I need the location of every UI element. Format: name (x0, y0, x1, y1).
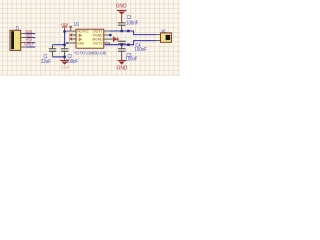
svg-text:GND: GND (116, 4, 127, 10)
svg-text:100nF: 100nF (126, 57, 138, 63)
svg-text:22uF: 22uF (41, 59, 51, 65)
ground flag top (116, 4, 127, 23)
svg-text:100nF: 100nF (126, 20, 138, 26)
J1 pin 4 (21, 46, 27, 48)
wire +5V vertical (64, 30, 66, 44)
U1 right pin 8 (OUT1) (104, 30, 110, 32)
no-connect X pin2 (69, 34, 72, 37)
pin 4 endpoint dot (66, 42, 68, 44)
svg-text:YS-TXYJ-B4B0U-C4B: YS-TXYJ-B4B0U-C4B (74, 50, 106, 55)
connector J1 (10, 30, 21, 50)
antenna connector M1 (161, 33, 172, 42)
capacitor C4 (118, 41, 126, 45)
capacitor C5 (118, 45, 126, 60)
wire cap rail top (53, 44, 65, 46)
U1 right pin 7 (PGND) (104, 34, 110, 36)
junction C4/C5 (121, 44, 123, 46)
wire cap rail bottom (53, 56, 65, 58)
no-connect mark pin1 (69, 26, 72, 28)
U1 right pin 5 (OUT2) (104, 42, 110, 44)
svg-text:OUT2: OUT2 (93, 41, 103, 46)
ground flag left (60, 57, 70, 70)
svg-text:100nF: 100nF (66, 59, 78, 65)
svg-text:100nF: 100nF (135, 47, 147, 53)
svg-text:GND: GND (78, 41, 85, 46)
pin 1 stub vertical (70, 27, 72, 31)
U1 left pin 2 (71, 34, 76, 36)
antenna pin stub top (156, 34, 161, 36)
stub end square (109, 34, 111, 36)
capacitor C1 (49, 45, 57, 57)
junction C2 top (63, 44, 65, 46)
op IC U1 body (76, 29, 104, 48)
wire net 2 (26, 37, 35, 39)
junction +5V/pin1 (63, 30, 65, 32)
junction mid bottom (127, 44, 129, 46)
svg-text:NC/VCC: NC/VCC (78, 29, 90, 34)
capacitor C2 (61, 45, 69, 57)
no-connect diode mark (113, 36, 119, 42)
antenna pin stub bottom (156, 40, 161, 42)
svg-text:GND: GND (61, 65, 70, 70)
background (0, 0, 180, 76)
J1 pin 3 (21, 42, 27, 44)
svg-text:GND: GND (24, 42, 33, 47)
wire net GND (26, 46, 35, 48)
U1 left pin 3 (71, 38, 76, 40)
wire net +5V (26, 42, 35, 44)
grid (0, 0, 180, 76)
junction mid top (127, 30, 129, 32)
svg-text:GND: GND (117, 65, 128, 71)
capacitor C3 (118, 22, 126, 31)
no-connect X pin3 (69, 38, 72, 41)
power flag +5V (61, 22, 70, 30)
U1 right pin 6 (MGND) (104, 38, 113, 40)
junction GND rail (63, 56, 65, 58)
wire net DATA (26, 33, 35, 35)
U1 pin 1 line (66, 30, 76, 32)
U1 left pin 4 GND (67, 42, 76, 44)
junction C3 (121, 30, 123, 32)
svg-text:U1: U1 (74, 22, 79, 28)
J1 pin 2 (21, 37, 27, 39)
wire ANT top (110, 31, 156, 35)
wire ANT bottom (105, 41, 157, 45)
ground flag bottom right (117, 60, 128, 72)
J1 pin 1 (21, 33, 27, 35)
